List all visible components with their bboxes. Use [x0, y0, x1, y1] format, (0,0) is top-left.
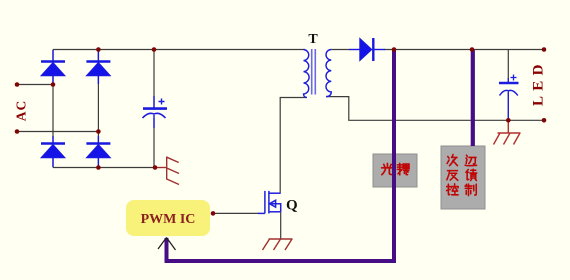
MOSFET Q1: [258, 191, 281, 214]
output diode D5: [349, 38, 385, 61]
svg-text:PWM IC: PWM IC: [141, 212, 196, 227]
wire bulk cap branch: [153, 50, 155, 168]
ground GND3 (output, earth style): [494, 120, 521, 144]
bridge diode D1 (top-left): [41, 50, 65, 84]
transformer T primary winding: [304, 50, 310, 98]
label optocoupler (Chinese 光耦): [382, 163, 410, 175]
wire bridge left column: [52, 50, 54, 168]
arrow into PWM IC: [158, 238, 176, 251]
wire secondary bottom rail: [326, 97, 544, 121]
bridge diode D4 (bottom-right): [86, 136, 110, 167]
node bridge right top junction: [96, 47, 101, 52]
ground GND1 (primary bulk cap, chassis style rotated): [156, 157, 180, 185]
wire AC line 2: [17, 131, 98, 133]
node bridge right AC junction: [96, 129, 101, 134]
node bridge right bottom junction: [96, 165, 101, 170]
PWM IC box: [126, 200, 210, 236]
node bulk cap top junction: [152, 47, 157, 52]
wire primary bottom to MOSFET drain: [280, 98, 306, 193]
svg-text:LED: LED: [531, 59, 547, 106]
node LED- terminal: [542, 118, 547, 123]
node PWM IC output pin: [211, 211, 216, 216]
node bulk cap bottom junction: [153, 165, 158, 170]
wire MOSFET source to ground: [280, 212, 282, 239]
feedback net: thick purple wire from output rail to secondary feedback control box: [471, 50, 475, 147]
node LED+ terminal: [542, 47, 547, 52]
bulk capacitor C1 (polarized): [143, 96, 168, 128]
node AC terminal 1: [15, 82, 20, 87]
node output cap bottom junction: [506, 118, 511, 123]
node feedback control tap: [470, 47, 475, 52]
wire bridge right column: [97, 50, 99, 168]
svg-text:T: T: [308, 32, 318, 47]
wire AC line 1: [17, 84, 53, 86]
junction node dots: [15, 47, 547, 216]
output capacitor C2 (polarized): [499, 75, 519, 121]
wire bottom rail (bridge negative): [53, 167, 156, 169]
node bridge left AC junction: [51, 82, 56, 87]
wire PWM IC output to gate: [213, 212, 259, 214]
bridge diode D2 (top-right): [86, 50, 110, 84]
transformer T secondary winding: [326, 50, 331, 97]
wire output cap branch: [507, 50, 509, 121]
feedback net: thick purple wire from output node down through optocoupler to PWM IC: [167, 50, 395, 262]
bridge diode D3 (bottom-left): [41, 136, 65, 167]
wire top rail right (transformer secondary to output diode to LED+): [331, 49, 544, 51]
secondary feedback control box: [441, 146, 485, 209]
ground GND2 (MOSFET source, earth style): [263, 239, 293, 250]
node output diode cathode / feedback tap: [392, 47, 397, 52]
svg-text:AC: AC: [14, 100, 29, 122]
optocoupler box: [373, 154, 417, 187]
svg-text:Q: Q: [286, 198, 298, 214]
wire top rail left (bridge to transformer primary): [53, 49, 304, 51]
node AC terminal 2: [15, 129, 20, 134]
transformer T core: [312, 49, 316, 95]
label secondary feedback control (Chinese 次边反馈控制): [447, 155, 477, 196]
